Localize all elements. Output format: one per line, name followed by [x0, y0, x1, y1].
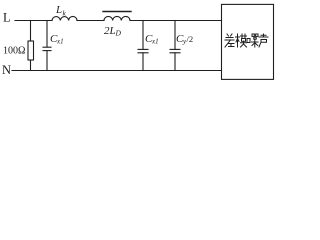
inductor Lk — [52, 16, 77, 20]
svg-text:/2: /2 — [187, 34, 194, 44]
wire capacitor Cy/2 branch top — [174, 21, 176, 50]
svg-text:L: L — [55, 4, 62, 16]
svg-text:2L: 2L — [104, 25, 116, 37]
wire between inductors — [77, 20, 104, 22]
wire top line from L to inductor Lk — [15, 20, 52, 22]
wire resistor branch top — [30, 21, 32, 42]
label Lk — [55, 4, 67, 18]
svg-text:N: N — [2, 63, 11, 77]
capacitor Cx1 — [43, 46, 51, 48]
svg-text:D: D — [115, 29, 122, 38]
wire bottom line N rail — [12, 70, 222, 72]
hanzi CHA — [225, 34, 234, 47]
wire resistor branch bottom — [30, 60, 32, 71]
wire from 2LD to module box — [130, 20, 222, 22]
wire capacitor Cx1 branch bottom — [46, 51, 48, 71]
wire capacitor Cx2 branch bottom — [142, 53, 144, 71]
svg-text:x1: x1 — [151, 38, 159, 46]
module box outline — [222, 4, 274, 79]
svg-text:100Ω: 100Ω — [3, 46, 25, 57]
hanzi SHENG — [259, 34, 268, 47]
inductor 2LD — [104, 16, 130, 20]
label Cx2 — [145, 33, 159, 46]
wire capacitor Cy/2 branch bottom — [174, 53, 176, 71]
label Cy/2 — [176, 33, 193, 46]
capacitor Cy/2 — [170, 48, 180, 50]
hanzi ZAO — [247, 34, 258, 47]
core bar over inductor 2LD — [103, 11, 131, 13]
label 2LD — [104, 25, 122, 38]
hanzi MO — [236, 34, 247, 47]
label Cx1 — [50, 33, 64, 46]
text differential-mode-noise hanzi (hand drawn) — [225, 34, 268, 47]
resistor 100ohm body — [28, 41, 34, 60]
wire capacitor Cx2 branch top — [142, 21, 144, 50]
svg-text:x1: x1 — [56, 38, 64, 46]
capacitor Cx2 — [138, 48, 148, 50]
svg-text:L: L — [3, 11, 11, 25]
wire capacitor Cx1 branch top — [46, 21, 48, 48]
